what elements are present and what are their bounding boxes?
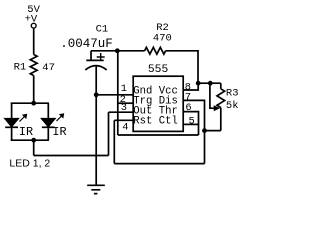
- pin 4 Rst wire: [114, 119, 133, 121]
- power terminal +V circle: [31, 23, 36, 28]
- wire LED2 cathode down: [47, 128, 49, 140]
- svg-text:+V: +V: [25, 13, 38, 25]
- pin 2 Trg wire: [118, 102, 133, 104]
- potentiometer R3 bottom lead: [220, 108, 222, 131]
- wire LED net to pin3: [34, 155, 109, 157]
- svg-text:IR: IR: [19, 125, 33, 139]
- capacitor C1 top plate: [86, 59, 103, 61]
- svg-text:Rst Ctl: Rst Ctl: [133, 115, 178, 127]
- wire LED rail down: [33, 140, 35, 155]
- pin 6 Thr wire: [183, 112, 198, 135]
- LED1 IR diode triangle: [5, 119, 18, 127]
- svg-text:5: 5: [189, 116, 195, 128]
- potentiometer R3 zigzag: [217, 89, 225, 108]
- top rail wire from C1 to R2: [91, 50, 145, 52]
- wire from +V terminal to R1 top: [33, 28, 35, 54]
- LED2 IR diode triangle: [42, 119, 55, 127]
- pin 7 Dis wire: [183, 100, 204, 163]
- svg-text:6: 6: [185, 102, 191, 114]
- pin 5 Ctl wire: [183, 123, 198, 125]
- svg-text:5k: 5k: [226, 100, 239, 112]
- svg-text:LED 1, 2: LED 1, 2: [9, 157, 50, 169]
- svg-text:R3: R3: [226, 87, 239, 99]
- capacitor C1 plus sign: [97, 53, 105, 61]
- ground symbol: [87, 185, 105, 193]
- svg-text:4: 4: [122, 121, 128, 133]
- svg-text:470: 470: [153, 32, 172, 44]
- node junction dot C1 to Gnd pin: [94, 92, 99, 97]
- wire Rst net bottom: [114, 163, 204, 165]
- LED bottom rail wire: [11, 139, 49, 141]
- node junction dot Vcc net left: [196, 81, 201, 86]
- resistor R1 zigzag: [30, 55, 37, 76]
- node junction dot LED cathode rail: [31, 138, 36, 143]
- LED top rail wire: [11, 102, 49, 104]
- wire right branch to LED2: [47, 103, 49, 119]
- wire pin4 drop: [113, 120, 115, 163]
- LED1 emission arrow: [20, 115, 27, 122]
- pin 3 Out wire: [109, 111, 134, 113]
- pin 1 Gnd wire: [96, 94, 133, 96]
- LED2 cathode bar: [42, 126, 55, 128]
- wire Vcc net row: [198, 82, 221, 84]
- svg-text:IR: IR: [52, 125, 66, 139]
- wire LED1 cathode down: [11, 128, 13, 140]
- wire under box Trg-Thr net: [118, 134, 199, 136]
- op-amp/timer U1 555 body box: [133, 76, 183, 131]
- node junction dot LED anode rail: [31, 101, 36, 106]
- wire Dis to R3 bottom: [205, 130, 221, 132]
- node junction dot top rail: [115, 48, 120, 53]
- wire ground stem: [95, 95, 97, 186]
- svg-text:47: 47: [42, 62, 55, 74]
- svg-text:C1: C1: [96, 24, 109, 36]
- capacitor C1 top lead: [90, 51, 92, 61]
- wire left branch to LED1: [11, 103, 13, 119]
- wire R2 right to corner: [166, 51, 198, 83]
- potentiometer R3 top lead: [220, 83, 222, 89]
- node junction dot Dis net: [202, 128, 207, 133]
- R3 wiper wire: [210, 83, 215, 108]
- LED2 emission arrow: [57, 114, 64, 121]
- wire R1 bottom to LED top rail: [33, 76, 35, 104]
- wire pin3 riser: [108, 112, 110, 155]
- wire Vcc stub drop: [183, 83, 198, 90]
- resistor R2 zigzag: [145, 47, 166, 54]
- svg-text:R1: R1: [14, 62, 27, 74]
- svg-text:3: 3: [121, 102, 127, 114]
- svg-text:555: 555: [148, 64, 169, 76]
- LED1 cathode bar: [5, 126, 18, 128]
- capacitor C1 bottom lead: [95, 66, 97, 95]
- wire C1 top drop to Trg net: [117, 51, 119, 135]
- svg-text:.0047uF: .0047uF: [60, 37, 113, 51]
- node junction dot Vcc net right: [208, 81, 213, 86]
- capacitor C1 curved bottom plate: [85, 66, 106, 70]
- R3 wiper arrowhead: [214, 106, 219, 110]
